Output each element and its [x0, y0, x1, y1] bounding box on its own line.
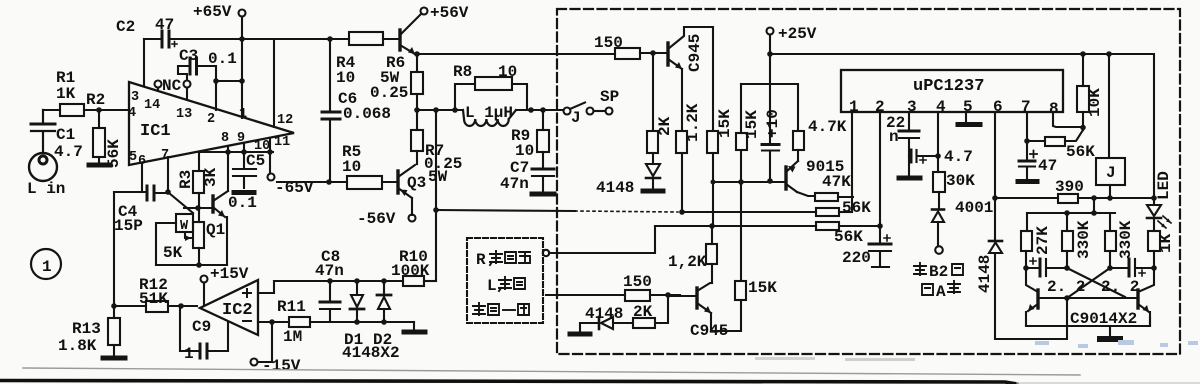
resistor 390	[995, 178, 1154, 203]
terminal R-channel stub	[543, 250, 549, 256]
svg-text:51K: 51K	[139, 290, 168, 308]
svg-text:SP: SP	[600, 88, 619, 106]
svg-text:330K: 330K	[1117, 220, 1135, 259]
wire output rail	[417, 109, 564, 111]
resistor R12 51K	[114, 276, 197, 312]
resistor 56K row2	[655, 222, 880, 246]
svg-text:56K: 56K	[834, 228, 863, 246]
svg-text:11: 11	[274, 135, 290, 150]
svg-text:+25V: +25V	[778, 25, 817, 43]
resistor 1.2K lower	[668, 226, 717, 283]
svg-text:7: 7	[1021, 98, 1031, 116]
resistor R11 1M	[277, 298, 330, 346]
ground under C5	[234, 190, 254, 195]
svg-text:4148: 4148	[976, 255, 994, 293]
wire emitter bottom row	[1026, 318, 1150, 326]
svg-text:1: 1	[184, 345, 194, 363]
svg-text:330K: 330K	[1075, 220, 1093, 259]
terminal +65V	[193, 3, 246, 21]
scan blue artifacts	[755, 340, 1198, 361]
terminal to B2 secondary A point	[935, 246, 943, 254]
svg-text:C9014X2: C9014X2	[1070, 310, 1137, 328]
svg-text:4.7K: 4.7K	[808, 118, 847, 136]
resistor 1.2K upper	[676, 103, 702, 212]
terminal -56V	[357, 210, 416, 228]
transistor C945 lower	[668, 283, 728, 340]
diode 4148 pin6	[976, 241, 1067, 339]
svg-text:1.8K: 1.8K	[58, 337, 97, 355]
resistor 15K second	[736, 84, 761, 281]
svg-text:2K: 2K	[633, 303, 653, 321]
svg-text:5: 5	[129, 150, 137, 165]
wire pin 6 stub	[141, 163, 143, 192]
transistor C9014 right	[1138, 268, 1154, 326]
inductor L 1uH	[463, 104, 516, 126]
svg-text:C2: C2	[116, 18, 135, 36]
svg-text:4148: 4148	[585, 305, 623, 323]
svg-text:+56V: +56V	[430, 4, 469, 22]
svg-text:15P: 15P	[114, 217, 143, 235]
wire pin2 node	[216, 81, 242, 110]
svg-text:15K: 15K	[716, 109, 734, 138]
svg-text:2: 2	[207, 112, 215, 127]
svg-text:30K: 30K	[946, 172, 975, 190]
ground under C7	[532, 192, 554, 197]
wire sense line y53	[417, 53, 615, 55]
capacitor 47 electrolytic pin7	[1019, 112, 1057, 179]
resistor 4.7K	[793, 118, 847, 161]
svg-text:150: 150	[623, 273, 652, 291]
resistor R3 3K	[177, 152, 220, 208]
resistor R1 1K	[43, 69, 129, 116]
svg-text:0.1: 0.1	[208, 50, 237, 68]
svg-text:390: 390	[1055, 178, 1084, 196]
ground pin5	[965, 112, 967, 122]
figure number 1	[31, 249, 61, 279]
svg-text:1.2K: 1.2K	[684, 103, 702, 142]
wire multivib top rail	[1027, 212, 1115, 214]
capacitor C3 0.1	[178, 47, 237, 81]
capacitor C4 15P	[114, 186, 166, 235]
wire +65V column to pin 1	[241, 17, 243, 119]
diode 4001	[932, 199, 993, 246]
wire R-channel line4	[546, 294, 625, 296]
wire pin6 column	[994, 112, 996, 241]
hanzi jie gou yi zhi line3	[473, 303, 529, 315]
svg-text:B2: B2	[929, 263, 948, 281]
wire pin 8 junction	[199, 151, 273, 153]
svg-text:0.25: 0.25	[370, 84, 408, 102]
terminal +25V	[767, 25, 817, 43]
svg-text:56K: 56K	[842, 199, 871, 217]
svg-text:1: 1	[239, 107, 247, 122]
capacitor C8 47n	[315, 248, 344, 322]
resistor 15K first	[707, 109, 734, 225]
capacitor 220 electrolytic	[842, 223, 891, 267]
svg-text:47: 47	[155, 16, 174, 34]
trimmer W	[176, 214, 193, 241]
resistor 47K	[797, 173, 853, 201]
resistor 5K trimmer body	[163, 208, 204, 265]
wire pin2 column	[879, 112, 881, 226]
transistor Q1	[206, 146, 228, 265]
svg-text:C1: C1	[56, 126, 75, 144]
svg-text:150: 150	[594, 34, 623, 52]
resistor R10 100K	[391, 248, 436, 286]
svg-text:J: J	[1106, 164, 1116, 182]
ground under R13	[103, 356, 125, 361]
transistor C9014 left	[1026, 268, 1038, 326]
svg-text:56K: 56K	[1066, 143, 1095, 161]
svg-text:12: 12	[277, 113, 293, 128]
NC pins 14 13	[155, 77, 191, 100]
input jack L in	[27, 153, 65, 198]
resistor R8 10	[453, 63, 527, 110]
svg-text:4148X2: 4148X2	[342, 344, 400, 362]
ground at row y322	[413, 322, 415, 330]
LED	[1147, 171, 1173, 231]
resistor 10K	[1077, 54, 1104, 130]
svg-text:R13: R13	[72, 320, 101, 338]
svg-text:+10: +10	[764, 109, 782, 138]
resistor 56K pin8	[1027, 112, 1095, 161]
capacitor C5 0.1 on pin 9	[228, 144, 265, 212]
resistor 1K	[1148, 231, 1175, 268]
ground multivib	[1109, 326, 1111, 337]
svg-text:10: 10	[515, 142, 534, 160]
svg-text:J: J	[571, 109, 581, 127]
wire Q1 emitter row	[156, 264, 227, 266]
svg-text:8: 8	[221, 131, 229, 146]
capacitor C2 47	[116, 16, 242, 47]
transistor 9015 PNP	[786, 158, 844, 192]
resistor R7 0.25 5W	[411, 130, 462, 186]
svg-text:47K: 47K	[822, 173, 851, 191]
svg-text:LED: LED	[1155, 171, 1173, 200]
svg-text:5W: 5W	[428, 168, 448, 186]
node emitter R6	[414, 51, 420, 57]
terminal -15V	[251, 322, 301, 375]
resistor 150 upper	[594, 34, 667, 59]
svg-text:1M: 1M	[283, 328, 302, 346]
node 56K row1 left	[679, 209, 685, 215]
resistor R6 0.25 5W	[370, 54, 423, 130]
wire pin 7 stub	[167, 157, 169, 192]
resistor 2K lower	[633, 295, 668, 328]
transistor driver NPN top	[400, 14, 421, 54]
svg-text:47n: 47n	[500, 175, 529, 193]
resistor R9 10	[511, 110, 549, 168]
svg-text:Q3: Q3	[407, 174, 426, 192]
resistor 27K	[1021, 213, 1052, 268]
svg-text:L: L	[487, 277, 497, 295]
svg-text:15K: 15K	[748, 279, 777, 297]
wire 9015 base row	[712, 181, 786, 183]
svg-text:13: 13	[176, 107, 192, 122]
resistor 15K lower	[711, 279, 777, 331]
switch J speaker	[564, 88, 620, 127]
svg-text:15K: 15K	[743, 110, 761, 139]
diode 4148 lower	[580, 305, 633, 332]
svg-text:10: 10	[342, 158, 361, 176]
wire collector to 15K	[684, 27, 713, 131]
wire dotted R channel line	[436, 210, 575, 211]
svg-text:L 1µH: L 1µH	[465, 104, 513, 122]
svg-text:L in: L in	[27, 180, 65, 198]
hanzi sheng dao line2	[499, 277, 525, 291]
terminal +56V	[421, 4, 469, 22]
node Q1 base	[195, 205, 201, 211]
wire R4 rail	[242, 38, 349, 40]
svg-text:R2: R2	[86, 91, 105, 109]
capacitor C6 0.068	[322, 39, 391, 182]
svg-text:C9: C9	[192, 318, 211, 336]
node output rail at R6R7	[414, 107, 420, 113]
scan line thin	[23, 368, 1080, 375]
svg-text:A: A	[936, 283, 946, 301]
scan bottom black bar	[0, 381, 1017, 384]
wire rail drop column	[435, 110, 437, 281]
svg-text:220: 220	[842, 249, 871, 267]
node caps	[1023, 265, 1029, 271]
capacitor 2.2 right	[1101, 259, 1154, 296]
svg-text:IC2: IC2	[222, 301, 253, 320]
capacitor +10 electrolytic	[762, 109, 782, 181]
svg-text:IC1: IC1	[140, 122, 171, 141]
wire feedback row y281	[274, 280, 403, 282]
wire C4 column down to R12 row	[113, 192, 115, 306]
svg-text:27K: 27K	[1034, 226, 1052, 255]
terminal -65V pin 11	[268, 138, 314, 197]
wire -65V row to R5	[277, 181, 347, 183]
wire multivib rail riser	[1093, 198, 1095, 213]
wire cross coupling	[1067, 268, 1125, 298]
R channel note box	[467, 238, 543, 323]
wire W branch left	[156, 223, 176, 265]
svg-text:0.068: 0.068	[343, 105, 391, 123]
svg-text:14: 14	[144, 98, 160, 113]
svg-text:-15V: -15V	[262, 357, 301, 375]
svg-text:1K: 1K	[1157, 233, 1175, 253]
capacitor C9 1	[180, 307, 228, 363]
IC uPC1237	[841, 70, 1063, 118]
svg-text:2. 2: 2. 2	[1047, 278, 1085, 296]
svg-text:4: 4	[128, 106, 136, 121]
ground under 56K	[89, 163, 110, 168]
svg-text:3K: 3K	[202, 167, 220, 187]
svg-text:47: 47	[1038, 157, 1057, 175]
svg-text:4001: 4001	[955, 199, 993, 217]
capacitor C7 47n	[500, 159, 554, 193]
op-amp IC2	[200, 280, 258, 335]
svg-text:R11: R11	[277, 298, 306, 316]
relay J	[1096, 54, 1125, 198]
resistor 56K row1	[682, 199, 871, 217]
svg-text:R: R	[476, 251, 486, 269]
wire C2 to pin 3	[143, 39, 145, 86]
svg-text:uPC1237: uPC1237	[913, 77, 984, 96]
svg-text:4.7: 4.7	[944, 148, 973, 166]
resistor R4 10	[336, 32, 400, 87]
svg-text:10: 10	[498, 63, 517, 81]
ground under 22n	[899, 176, 920, 181]
svg-text:4.7: 4.7	[54, 143, 83, 161]
wire bottom row y322	[330, 321, 414, 323]
svg-text:1K: 1K	[56, 85, 76, 103]
svg-text:1: 1	[849, 98, 859, 116]
transistor C945 upper	[668, 27, 704, 131]
svg-text:1,2K: 1,2K	[668, 253, 707, 271]
op-amp IC1	[128, 82, 294, 169]
ground under diode 4148 upper	[643, 189, 663, 194]
resistor 150 lower	[623, 273, 680, 301]
svg-text:+15V: +15V	[210, 265, 249, 283]
capacitor 22n on pin3	[886, 112, 919, 176]
svg-text:5K: 5K	[163, 244, 183, 262]
svg-text:2K: 2K	[656, 116, 674, 136]
dashed protection box border	[557, 9, 1180, 354]
svg-text:R3: R3	[177, 170, 195, 189]
svg-text:-56V: -56V	[357, 210, 396, 228]
svg-text:C5: C5	[246, 152, 265, 170]
transistor Q3 PNP	[398, 165, 426, 215]
capacitor 2.2 left	[1026, 258, 1085, 296]
node R2 junction	[96, 107, 102, 113]
svg-text:C945: C945	[686, 34, 704, 72]
svg-text:47n: 47n	[315, 262, 344, 280]
resistor 2K upper	[647, 53, 674, 153]
svg-text:1: 1	[42, 258, 52, 276]
svg-text:Q1: Q1	[206, 221, 225, 239]
svg-text:0.1: 0.1	[228, 194, 257, 212]
svg-text:10K: 10K	[1086, 88, 1104, 117]
hanzi jie B2 ci ji A dian	[914, 263, 963, 295]
capacitor 4.7 electrolytic pin4	[909, 148, 973, 166]
resistor 56K to ground	[93, 110, 123, 168]
wire +25V rail right	[770, 54, 1154, 198]
resistor 330K first	[1062, 213, 1093, 268]
diode 4148 upper	[596, 153, 660, 197]
svg-text:n: n	[889, 128, 899, 146]
svg-text:3: 3	[131, 90, 139, 105]
svg-text:C3: C3	[179, 47, 198, 65]
svg-text:5: 5	[963, 98, 973, 116]
svg-text:100K: 100K	[391, 262, 430, 280]
wire +25V column and bracket	[741, 35, 798, 145]
hanzi sheng dao yu line1	[490, 251, 530, 265]
svg-text:10: 10	[336, 69, 355, 87]
resistor R13 1.8K	[58, 303, 120, 356]
wire pin 12 feedback	[273, 39, 275, 127]
diode D2	[373, 281, 392, 349]
svg-text:4148: 4148	[596, 179, 634, 197]
wire IC2 inputs	[258, 281, 289, 322]
resistor R5 10	[342, 143, 398, 189]
ground at diode 4148 lower	[570, 332, 590, 337]
wire R-channel line3 step	[549, 226, 655, 253]
wire pin1 column	[851, 112, 853, 212]
resistor 330K second	[1105, 213, 1135, 268]
diode D1	[344, 281, 364, 349]
terminal +15V	[201, 265, 249, 305]
svg-text:+65V: +65V	[193, 3, 232, 21]
ground under 47	[1018, 179, 1037, 184]
capacitor C1 4.7	[31, 110, 83, 161]
svg-text:R8: R8	[453, 63, 472, 81]
resistor 30K pin4	[933, 112, 975, 209]
